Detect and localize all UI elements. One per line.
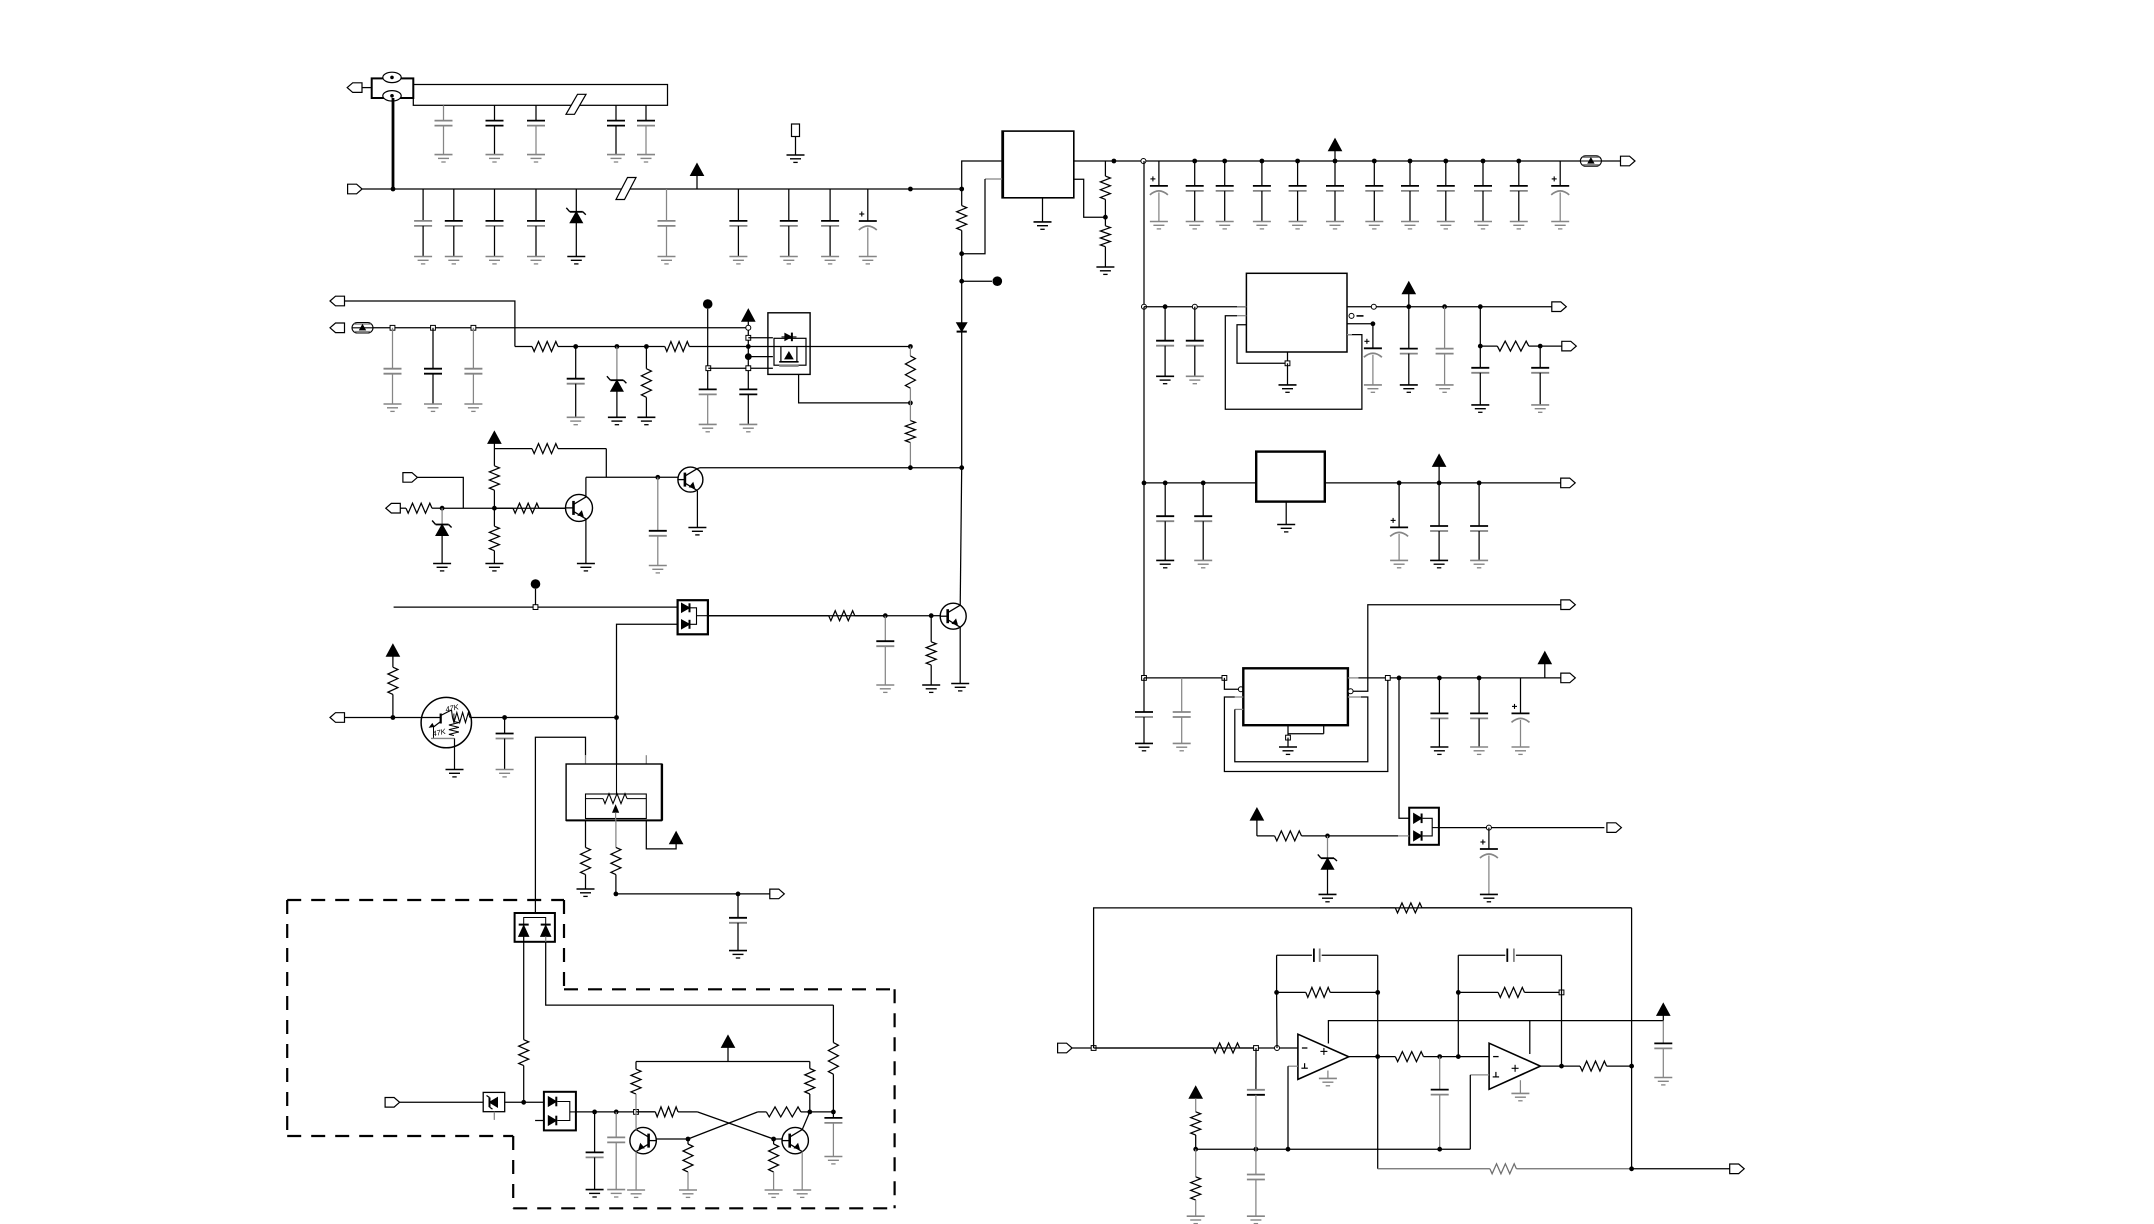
capacitor C92: [1470, 483, 1488, 568]
resistor R15: [926, 616, 936, 685]
diode pack D9 (dual) outline: [1409, 808, 1439, 845]
wire (right fb drop): [1631, 908, 1633, 1169]
junction: [1372, 159, 1377, 164]
wire: [605, 449, 607, 478]
wire (Q3 collector): [960, 468, 962, 606]
junction: [644, 344, 649, 349]
resistor R24: [758, 1107, 810, 1117]
transistor Q6 inner box: [774, 338, 806, 365]
transistor Q6 body diode: [782, 333, 797, 342]
polarized capacitor C83: [1364, 324, 1382, 393]
resistor R14: [708, 611, 885, 621]
resistor R36: [1191, 1149, 1201, 1216]
wire (thick return drop): [392, 98, 395, 189]
junction: [883, 613, 888, 618]
wire (fb2 left): [1457, 955, 1459, 1056]
resistor R8: [905, 403, 915, 468]
capacitor C11 (bus filter): [435, 105, 453, 162]
wire (U6A V+): [1328, 1021, 1663, 1044]
capacitor C15 (bus filter): [637, 105, 655, 162]
wire (U3 stub gray): [1347, 334, 1352, 336]
wire (Q5 base): [774, 1138, 783, 1140]
zener diode D3: [607, 347, 627, 425]
capacitor C411 (5V filter): [1510, 161, 1528, 229]
capacitor C71: [649, 477, 667, 573]
junction: [1456, 1054, 1461, 1059]
ground (R5): [637, 417, 655, 424]
wire (Q5 collector): [802, 1112, 810, 1130]
wire (fb2 right): [1561, 955, 1563, 1066]
capacitor C33 (input filter): [821, 189, 839, 264]
IC U2 potentiometer: [586, 794, 647, 804]
IC U3 (LDO regulator): [1246, 273, 1347, 352]
zener box D7: [483, 1092, 505, 1111]
resistor R34: [1562, 1061, 1632, 1071]
wire: [1328, 835, 1399, 837]
wire (Q6 drain2 out): [799, 374, 911, 403]
wire (fb1 left): [1276, 955, 1278, 1048]
wire (U4 vin): [1144, 482, 1256, 484]
connector J1 (power return): [347, 83, 362, 93]
wire: [1287, 738, 1289, 747]
resistor R6: [646, 342, 748, 352]
wire (feedback out): [616, 893, 770, 895]
junction: [1406, 304, 1411, 309]
capacitor C74: [729, 894, 747, 958]
junction: [1254, 1147, 1259, 1152]
junction: [1112, 159, 1117, 164]
wire (feed down): [1143, 483, 1145, 678]
resistor R25: [683, 1139, 693, 1190]
ferrite bead FB1: [1580, 156, 1601, 166]
wire (to node marker): [962, 280, 992, 282]
capacitor C13 (bus filter): [527, 105, 545, 162]
junction: [831, 1110, 836, 1115]
wire (Q3 emitter): [959, 627, 961, 683]
junction: [521, 1100, 526, 1105]
capacitor C99 (fb): [1277, 949, 1378, 962]
wire: [362, 87, 372, 89]
wire: [523, 936, 525, 941]
junction: [1222, 159, 1227, 164]
capacitor C44 (5V filter): [1253, 161, 1271, 229]
wire (outer feedback): [1094, 908, 1632, 1048]
wire (U5 stub gray): [1348, 696, 1361, 698]
power symbol VCC13: [1189, 1086, 1202, 1098]
op-amp U6B: [1489, 1043, 1540, 1089]
junction (open square): [746, 335, 751, 340]
wire (D8 lower stub): [535, 1120, 544, 1122]
junction (open circle): [746, 325, 751, 330]
resistor R21: [631, 1062, 641, 1112]
transistor pack Q7 (with 47K resistors): [421, 697, 471, 769]
wire (U3 pin stub): [1237, 307, 1246, 316]
wire (U5 inner fb loop): [1235, 697, 1368, 762]
connector J3 (5V out): [1621, 156, 1636, 166]
capacitor C24 (input filter): [527, 189, 545, 264]
resistor R37: [1378, 1164, 1632, 1174]
bus (return bus): [413, 85, 667, 106]
wire (Q7 out): [471, 717, 616, 719]
wire (U6B + bias): [1469, 1075, 1471, 1149]
node marker A: [993, 276, 1003, 286]
junction: [959, 251, 964, 256]
junction: [1274, 990, 1279, 995]
resistor R16: [388, 667, 398, 717]
power symbol VCC11: [1250, 808, 1263, 820]
wire: [1256, 820, 1258, 836]
wire (Q6 pin): [748, 356, 773, 358]
resistor R33 (fb): [1458, 987, 1561, 997]
junction (open square): [471, 325, 476, 330]
junction: [959, 279, 964, 284]
power symbol VCC10: [1538, 652, 1551, 678]
wire (to U2 ref): [617, 624, 678, 764]
wire: [505, 1101, 544, 1103]
wire (U2 pin): [585, 820, 587, 847]
wire (Q4 emitter): [635, 1152, 637, 1190]
wire (drive line): [394, 606, 678, 608]
wire (U3 vin): [1144, 306, 1246, 308]
wire (U5 outer fb loop): [1224, 678, 1387, 772]
power symbol VCC3: [742, 309, 755, 325]
junction: [908, 401, 913, 406]
junction: [1260, 159, 1265, 164]
junction (open square): [1222, 676, 1227, 681]
power symbol VCC7: [722, 1035, 735, 1061]
wire (Q1 emitter): [585, 519, 587, 564]
capacitor C81: [1156, 307, 1174, 384]
junction: [1443, 159, 1448, 164]
IC U4 (regulator): [1256, 452, 1325, 502]
wire (U6A out): [1349, 1056, 1378, 1058]
resistor R35: [1191, 1098, 1201, 1149]
junction: [807, 1110, 812, 1115]
junction: [1456, 990, 1461, 995]
diode D9a: [1414, 814, 1422, 824]
wire (5V output rail): [1074, 160, 1621, 162]
capacitor C65: [699, 389, 717, 431]
wire: [617, 346, 647, 348]
junction (open circle): [1142, 304, 1147, 309]
wire (U5 out rail): [1358, 677, 1560, 679]
capacitor C66: [739, 389, 757, 431]
capacitor C22 (input filter): [445, 189, 463, 264]
capacitor C94: [1173, 678, 1191, 751]
capacitor C103: [1247, 1048, 1265, 1149]
wire (enable): [345, 301, 515, 347]
connector J15: [1561, 673, 1576, 683]
wire (U2 pin stub): [645, 755, 647, 764]
connector J9 (fb): [770, 889, 785, 899]
connector J5 (aux input): [330, 323, 345, 333]
junction (open square): [1559, 990, 1564, 995]
wire (flip-flop feed): [546, 942, 834, 1005]
capacitor C82: [1186, 307, 1204, 384]
polarized capacitor C52 (5V bulk): [1551, 161, 1569, 229]
wire (Q1 base row): [442, 507, 565, 509]
IC U2 potentiometer box: [586, 794, 647, 819]
wire: [1540, 345, 1562, 347]
capacitor C31 (input filter): [729, 189, 747, 264]
junction: [929, 613, 934, 618]
wire (fb1 right): [1377, 955, 1379, 1056]
junction (ring): [745, 354, 751, 360]
connector J4 (enable): [330, 296, 345, 306]
ground (R25): [679, 1190, 697, 1197]
junction: [1201, 481, 1206, 486]
connector J7: [386, 503, 401, 513]
connector J12 (3.3V): [1552, 302, 1567, 312]
wire (Q6 drain out): [748, 346, 910, 348]
wire (U5 gnd stubs): [1288, 725, 1324, 737]
junction: [592, 1110, 597, 1115]
wire: [535, 589, 537, 607]
transistor Q4: [630, 1127, 656, 1153]
power symbol VCC2 (5V): [1329, 139, 1342, 161]
IC U2 (adjustable reference): [566, 764, 662, 820]
wire: [417, 477, 463, 508]
resistor R3 (U1 out divider lower): [1100, 217, 1110, 267]
junction: [1397, 676, 1402, 681]
wire (3.3V rail): [1347, 306, 1552, 308]
junction: [1442, 304, 1447, 309]
capacitor C23 (input filter): [486, 189, 504, 264]
connector J11: [1562, 341, 1577, 351]
ferrite bead FB2: [352, 323, 373, 333]
junction: [1193, 1147, 1198, 1152]
capacitor C72: [876, 616, 894, 693]
resistor R7: [905, 347, 915, 403]
junction: [959, 187, 964, 192]
junction: [1477, 481, 1482, 486]
capacitor C85: [1436, 307, 1454, 393]
wire (D9 internal): [1423, 818, 1439, 836]
junction: [1437, 1147, 1442, 1152]
node (open circle) 5V: [1141, 159, 1146, 164]
junction: [1538, 344, 1543, 349]
wire (U4 gnd stub): [1285, 502, 1287, 525]
wire (U3 sense): [1347, 323, 1373, 325]
fuse F2: [383, 91, 401, 101]
junction: [1103, 215, 1108, 220]
diode D8a: [548, 1097, 556, 1107]
resistor R2 (U1 out divider upper): [1100, 161, 1110, 217]
junction: [908, 187, 913, 192]
junction: [502, 715, 507, 720]
IC U1 (switching regulator): [1002, 131, 1074, 198]
ground (Q1): [577, 564, 595, 571]
transistor Q1: [566, 494, 593, 521]
resistor R20: [828, 1005, 838, 1112]
resistor R29: [1094, 1043, 1256, 1053]
wire: [545, 936, 547, 941]
wire (U3 inner loop): [1237, 325, 1288, 364]
diode D6a: [519, 925, 529, 937]
power symbol VCC8 (3.3V): [1402, 282, 1415, 307]
capacitor C47 (5V filter): [1365, 161, 1383, 229]
connector J14: [1561, 600, 1576, 610]
capacitor C73: [496, 718, 514, 777]
junction: [440, 506, 445, 511]
resistor R19: [519, 942, 529, 1103]
wire (U6B gnd): [1519, 1080, 1521, 1093]
diode D5b: [682, 620, 690, 629]
capacitor C100 (vcc decouple): [1654, 1021, 1672, 1085]
wire (Q2 emitter): [696, 491, 698, 528]
wire (5V feed down): [1143, 161, 1145, 307]
power symbol VCC9: [1433, 454, 1446, 483]
junction: [746, 344, 751, 349]
junction: [1192, 159, 1197, 164]
capacitor C12 (bus filter): [486, 105, 504, 162]
wire (U6A gnd): [1327, 1071, 1329, 1079]
junction: [1478, 344, 1483, 349]
junction: [492, 506, 497, 511]
wire (flip-flop input): [576, 1111, 655, 1113]
wire (U6A + bias): [1287, 1066, 1289, 1149]
capacitor C93: [1135, 678, 1153, 751]
junction: [614, 1110, 619, 1115]
junction: [1142, 481, 1147, 486]
junction: [1295, 159, 1300, 164]
wire (D5 internal): [691, 608, 708, 625]
junction: [908, 344, 913, 349]
power symbol VCC1: [691, 164, 704, 190]
power symbol VCC4: [488, 431, 501, 448]
junction (open square): [431, 325, 436, 330]
resistor R12: [489, 449, 499, 509]
junction: [614, 892, 619, 897]
wire (Q2 collector rail): [700, 467, 962, 469]
transistor Q2: [678, 467, 703, 492]
junction: [1437, 1054, 1442, 1059]
capacitor C410 (5V filter): [1474, 161, 1492, 229]
diode pack D8 (dual) outline: [544, 1092, 576, 1131]
junction: [1163, 304, 1168, 309]
wire (U1 fb loop): [962, 179, 985, 254]
ground (R3): [1096, 267, 1114, 274]
junction: [1325, 834, 1330, 839]
wire: [1224, 678, 1238, 689]
junction: [391, 187, 396, 192]
capacitor C91: [1430, 483, 1448, 568]
junction: [771, 1137, 776, 1142]
capacitor C88: [1156, 483, 1174, 568]
connector J16: [1607, 823, 1622, 833]
wire (U3 gnd stub): [1287, 352, 1289, 363]
ground (U5): [1279, 747, 1297, 754]
capacitor C46 (5V filter): [1326, 161, 1344, 229]
capacitor C61 (aux filter): [384, 328, 402, 412]
junction: [1437, 481, 1442, 486]
IC U5 (regulator): [1243, 668, 1348, 725]
junction (open square): [706, 366, 711, 371]
capacitor C43 (5V filter): [1216, 161, 1234, 229]
junction (open square): [1285, 361, 1290, 366]
capacitor C14 (bus filter): [607, 105, 625, 162]
capacitor C63 (aux filter): [464, 328, 482, 412]
junction: [1408, 159, 1413, 164]
capacitor C76: [607, 1112, 625, 1197]
op-amp U6A: [1298, 1034, 1349, 1079]
bus-width marker 1: [566, 94, 586, 114]
wire (U2 internal): [616, 764, 618, 794]
junction: [686, 1137, 691, 1142]
resistor R10: [400, 503, 442, 513]
junction (open circle): [1238, 687, 1243, 692]
capacitor C77: [824, 1112, 842, 1164]
wire (U6A + stub): [1288, 1065, 1298, 1067]
junction: [1629, 1064, 1634, 1069]
capacitor C62 (aux filter): [424, 328, 442, 412]
ground (R26): [765, 1190, 783, 1197]
capacitor C48 (5V filter): [1401, 161, 1419, 229]
resistor R26: [769, 1139, 779, 1190]
transistor Q6 mosfet symbol: [779, 346, 798, 362]
capacitor C101: [1431, 1057, 1449, 1150]
wire: [576, 346, 617, 348]
wire (feed down): [1143, 307, 1145, 483]
wire (Q4 collector): [635, 1112, 637, 1130]
polarized capacitor C97: [1512, 678, 1530, 755]
diode D8b: [548, 1116, 556, 1126]
wire: [400, 1101, 484, 1103]
capacitor C89: [1194, 483, 1212, 568]
zener diode D10: [1318, 836, 1337, 902]
capacitor C64: [567, 347, 585, 425]
wire: [345, 717, 422, 719]
resistor R23: [636, 1107, 697, 1117]
capacitor C49 (5V filter): [1437, 161, 1455, 229]
polarized capacitor C34 (bulk input): [859, 189, 877, 264]
zener diode D7: [487, 1096, 498, 1110]
junction (open circle): [1486, 825, 1491, 830]
junction (open circle): [1275, 1046, 1280, 1051]
resistor R22: [805, 1062, 815, 1112]
wire (audio out): [1632, 1168, 1730, 1170]
junction: [1437, 676, 1442, 681]
ground (R17): [577, 889, 595, 896]
wire (opamp1 input): [1072, 1047, 1298, 1049]
wire (U6B V+): [1529, 1021, 1531, 1054]
node marker C: [531, 579, 541, 589]
wire (to U6B): [1458, 1056, 1489, 1058]
diode D2: [957, 281, 967, 331]
junction (open circle): [1348, 689, 1353, 694]
transistor Q6 (dual P-MOSFET) outline: [768, 313, 810, 375]
wire (Q6 pin): [748, 337, 773, 339]
IC U2 wiper arrow: [613, 805, 619, 820]
power symbol VCC12: [1657, 1003, 1670, 1020]
wire (Q6 gate rail): [708, 367, 773, 369]
wire: [1287, 363, 1289, 385]
junction: [1375, 990, 1380, 995]
capacitor C32 (input filter): [780, 189, 798, 264]
polarized capacitor C90: [1390, 483, 1408, 568]
junction: [614, 715, 619, 720]
connector J17 (signal in): [1058, 1043, 1073, 1053]
wire: [697, 467, 700, 470]
junction (open square): [746, 366, 751, 371]
wire (U5 sense out): [1353, 605, 1561, 692]
junction: [736, 892, 741, 897]
wire (U5 vin): [1144, 677, 1224, 679]
capacitor C84: [1400, 307, 1418, 393]
wire (U3 outer loop): [1225, 316, 1362, 410]
wire (U6B out): [1540, 1065, 1561, 1067]
junction (open circle): [1192, 304, 1197, 309]
